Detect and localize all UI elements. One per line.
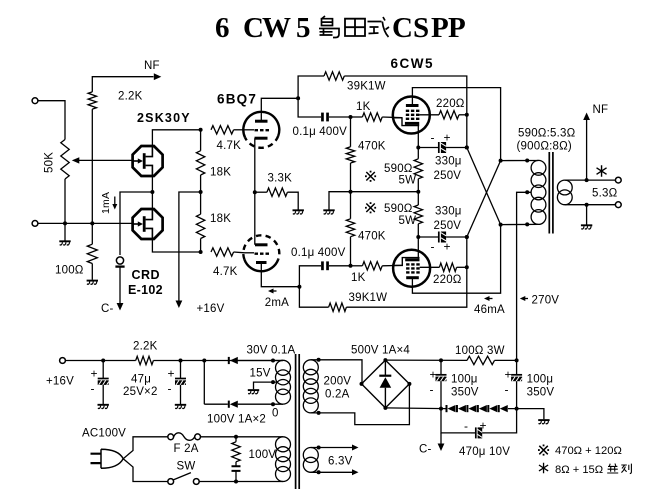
svg-text:100μ: 100μ [451,374,478,386]
6.3V bottom arrowhead [352,469,359,475]
svg-text:6BQ7: 6BQ7 [217,92,257,107]
svg-text:590Ω: 590Ω [384,163,413,175]
wire 6BQ7l cathode lead [261,263,299,287]
junction railA cap upper [465,146,469,150]
junction cross A bottom [465,235,469,239]
title kanji shiki [368,17,390,37]
svg-text:39K1W: 39K1W [349,292,388,304]
junction 6BQ7u plate node [296,96,300,100]
junction 200V top [317,358,321,362]
svg-text:-: - [431,240,435,254]
svg-text:-: - [431,131,435,145]
wire 100V bottom [199,481,283,483]
asterisk near 5.3ohm [597,165,607,177]
ground bias mid [323,210,334,214]
wire bias mid to gnd [329,192,351,210]
note refmark [538,445,549,456]
svg-text:4.7K: 4.7K [217,140,242,152]
svg-text:+: + [444,131,451,145]
junction 18K mid [199,190,203,194]
junction NF takeoff [585,178,589,182]
wire cathode node down 39K lower [299,287,328,308]
junction 6.3V bottom [317,470,321,474]
wire 15V tap [254,382,278,389]
wire plug bottom [123,459,168,482]
refmark near 590ohm upper [365,171,376,182]
svg-text:+: + [444,240,451,254]
46mA arrow line [486,298,493,300]
svg-text:4.7K: 4.7K [213,266,238,278]
resistor 470K upper [346,147,354,163]
svg-text:5W: 5W [399,175,417,187]
snubber resistor [232,442,240,462]
svg-text:0.2A: 0.2A [325,389,350,401]
wire 6CW5l plate lead [412,225,500,294]
resistor 100ohm3W [467,356,495,364]
junction cascode mid [150,190,154,194]
junction cathode mid [416,190,420,194]
wire pot bottom [64,179,66,223]
wire 220ohm to railA lower [457,266,467,268]
junction railA cap lower [465,235,469,239]
OPT core [549,152,553,234]
wire plug top [123,437,168,459]
junction bridge bottom [383,406,387,410]
ground input [59,241,70,245]
junction bridge right [407,382,411,386]
resistor 590ohm lower [414,205,422,224]
C- arrowhead psu [438,444,445,452]
wire 1K to 6CW5 grid upper [382,116,402,119]
resistor 220ohm upper [439,111,459,119]
wire 200V top [311,360,362,384]
capacitor 0.1u lower [321,261,329,270]
diode 30V upper [228,357,238,364]
svg-text:590Ω: 590Ω [384,203,413,215]
wire SRPP mid to 3.3K [255,191,267,193]
svg-text:AC100V: AC100V [82,428,126,440]
junction 47u cap1 [101,359,105,363]
svg-text:25V×2: 25V×2 [123,386,158,398]
svg-text:6CW5: 6CW5 [215,12,311,44]
wire diode lower leads [204,403,283,405]
bias diode 3 [466,405,476,412]
wire OPT secondary top [565,179,616,181]
wire plate node down to cap [298,98,321,117]
svg-text:250V: 250V [434,170,462,182]
1mA arrow line [114,197,116,206]
wire input bottom [38,222,65,224]
OPT primary winding [531,160,546,224]
CRD diode E-102 [115,257,124,267]
svg-text:2mA: 2mA [265,297,289,309]
svg-text:-: - [168,382,172,396]
svg-text:6CW5: 6CW5 [391,56,435,71]
svg-text:30V 0.1A: 30V 0.1A [247,345,296,357]
svg-text:+: + [505,368,512,382]
wire 6BQ7u cathode lead [254,138,256,192]
resistor 4.7K lower [211,248,234,256]
svg-text:1mA: 1mA [100,192,112,214]
wire 590 upper leads [417,148,419,206]
svg-text:100Ω: 100Ω [55,265,84,277]
capacitor 100u second [511,360,522,408]
svg-text:590Ω:5.3Ω: 590Ω:5.3Ω [518,127,576,139]
junction railA g2 upper [465,113,469,117]
wire 200V bottom [311,384,410,425]
svg-text:100μ: 100μ [527,374,554,386]
wire 100ohm to gnd [91,264,93,280]
wire OPT primary top [501,160,539,162]
resistor 18K lower [196,214,204,238]
junction 6.3V top [317,446,321,450]
note asterisk [539,463,548,474]
svg-text:350V: 350V [451,387,479,399]
junction secondary gnd [585,203,589,207]
junction snubber bottom [234,480,238,484]
snubber capacitor [232,466,241,471]
ground 3.3K [293,210,304,214]
wire 18K rail top [200,130,202,151]
wire 1K lead left lower [351,265,363,267]
note kanji retsu [621,464,631,474]
svg-text:+: + [430,368,437,382]
wire 590 lower lead [417,224,419,237]
wire bias rail [385,408,544,419]
capacitor 0.1u upper [321,113,329,122]
svg-text:+16V: +16V [46,376,74,388]
junction 30V top [271,359,275,363]
wire secondary gnd [586,205,588,225]
resistor 4.7K upper [211,126,234,134]
capacitor 330u lower [418,232,467,243]
snubber wire [235,437,237,482]
capacitor 100u first [436,360,447,408]
junction cathode bottom [416,235,420,239]
wire J1 source to J2 drain [151,175,153,210]
svg-text:0: 0 [272,408,279,420]
PT core [296,354,300,489]
junction 47u cap2 [179,359,183,363]
bias diode 1 [446,405,456,412]
wire 4.7K to grid upper [234,129,245,131]
pot wiper arrow wire [79,159,134,161]
junction bias cap2 [515,407,519,411]
junction 18K bottom [199,250,203,254]
wire gnd stub input [64,223,66,240]
resistor 220ohm lower [439,263,456,271]
wire 470K upper bottom [350,163,352,192]
switch lever [173,473,191,480]
wire 100V top [200,436,283,438]
junction cross B bottom [499,223,503,227]
svg-text:2.2K: 2.2K [118,91,143,103]
wire 6BQ7u grid lead [245,129,255,131]
svg-text:18K: 18K [210,213,231,225]
refmark near 590ohm lower [365,202,376,213]
svg-text:100Ω 3W: 100Ω 3W [455,345,505,357]
wire input top [38,101,65,140]
junction cross B top [499,159,503,163]
tube 6CW5 lower [393,250,430,287]
svg-text:15V: 15V [250,368,271,380]
junction railA g2 lower [465,265,469,269]
OPT secondary winding [557,180,572,205]
wire OPT secondary bottom [565,204,616,206]
svg-text:F 2A: F 2A [174,443,199,455]
svg-text:39K1W: 39K1W [347,81,386,93]
svg-text:46mA: 46mA [474,304,505,316]
svg-text:500V 1A×4: 500V 1A×4 [351,345,410,357]
junction B+ cap1 [439,358,443,362]
svg-text:47μ: 47μ [131,374,151,386]
junction OPT bottom dot [525,222,529,226]
svg-text:5W: 5W [399,215,417,227]
NF arrowhead left [154,73,162,80]
wire mid to CRD [120,192,152,255]
input terminal top [32,98,38,104]
wire rail to 100ohm [91,223,93,244]
junction 18K top [199,128,203,132]
junction NF rail bottom [90,221,94,225]
svg-text:E-102: E-102 [128,283,163,297]
svg-text:3.3K: 3.3K [268,172,293,184]
resistor 100ohm [87,244,97,263]
wire 18K mid to +16V drop [179,192,201,301]
svg-text:6.3V: 6.3V [328,456,353,468]
svg-text:-: - [505,383,509,397]
junction grid node lower [349,264,353,268]
note kanji nami [607,464,618,474]
+16V arrowhead [176,301,183,309]
bias diode 5 [487,405,497,412]
resistor 39K1W lower [329,303,347,311]
fuse element [174,433,195,441]
resistor 2.2K upper [88,92,96,109]
svg-text:0.1μ 400V: 0.1μ 400V [293,126,348,138]
svg-text:0.1μ 400V: 0.1μ 400V [291,247,346,259]
2mA arrow line [270,290,277,292]
bias diode 2 [456,405,466,412]
input terminal bottom [32,221,38,227]
svg-text:100V 1A×2: 100V 1A×2 [207,414,266,426]
wire 6CW5l g2 lead [420,266,440,268]
ground 47u second [175,405,186,409]
svg-text:470μ 10V: 470μ 10V [459,446,510,458]
transistor 2SK30Y lower [133,209,163,239]
ground 15V tap [248,390,259,394]
terminal +16V [60,358,66,364]
wire 6BQ7u plate lead [261,98,298,121]
NF arrowhead right [583,113,590,121]
wire 1K to 6CW5 grid lower [382,264,402,266]
PT winding 6.3V [303,448,318,473]
junction grid node upper [349,115,353,119]
1mA arrowhead [112,204,117,210]
resistor 1K upper [362,113,382,121]
svg-text:-: - [464,419,468,433]
wire 4.7K to grid lower [234,251,245,254]
junction input gnd [63,221,67,225]
switch terminal right [193,479,199,485]
svg-text:220Ω: 220Ω [433,274,462,286]
svg-text:8Ω + 15Ω: 8Ω + 15Ω [555,464,603,476]
junction 30V bottom [271,402,275,406]
junction SRPP mid [253,190,257,194]
wire diode join vertical [203,361,205,405]
wire 1K lead left upper [351,116,363,118]
svg-text:270V: 270V [532,295,560,307]
diode 30V lower [228,401,238,408]
C- arrowhead upper [117,303,124,311]
tube 6CW5 upper [393,97,430,134]
svg-text:C-: C- [101,303,114,315]
svg-text:330μ: 330μ [435,206,462,218]
junction 6BQ7l cathode node [297,285,301,289]
svg-text:100V: 100V [249,449,277,461]
svg-text:1K: 1K [351,272,366,284]
wire CRD to C- [119,267,121,303]
svg-text:18K: 18K [210,166,231,178]
junction bridge top [383,358,387,362]
svg-text:(900Ω:8Ω): (900Ω:8Ω) [517,141,572,153]
wire C- psu [440,433,442,444]
wire 6CW5u g2 lead [419,114,439,116]
svg-text:+: + [91,367,98,381]
wire cap to 1K node upper [329,116,351,118]
PT winding 100V [276,437,291,482]
270V arrowhead [520,296,526,301]
resistor 590ohm upper [414,159,422,179]
270V arrow line [522,298,528,300]
2mA arrowhead [268,289,274,294]
capacitor 470u 10V [471,427,485,438]
svg-text:50K: 50K [44,152,56,173]
svg-text:200V: 200V [324,376,352,388]
svg-text:-: - [91,382,95,396]
svg-text:470Ω + 120Ω: 470Ω + 120Ω [555,445,622,457]
wire 6CW5u cathode lead [417,124,419,148]
svg-text:5.3Ω: 5.3Ω [592,188,618,200]
svg-text:CRD: CRD [132,268,161,282]
svg-text:330μ: 330μ [435,156,462,168]
wire 470K lower leads [350,192,352,266]
wire 6BQ7l plate lead [254,192,256,245]
wire 6BQ7l grid lead [245,252,255,254]
output terminal bottom [615,202,621,208]
resistor 1K lower [362,262,382,270]
wire NF up [586,119,588,180]
tube 6BQ7 upper [243,112,279,148]
svg-text:NF: NF [144,60,160,72]
svg-text:350V: 350V [527,387,555,399]
wire input bottom to rail [65,222,134,224]
wire cap to 1K node lower [329,265,351,267]
potentiometer 50K [61,140,69,180]
title kanji shima [319,16,339,38]
resistor 3.3K [267,188,288,196]
fuse terminal right [195,434,201,440]
resistor 2.2K psu [136,356,154,364]
bridge rectifier 500V [362,360,410,408]
wire J2 gate stub [133,222,135,224]
wire 470u branch [441,409,517,433]
svg-text:+: + [480,419,487,433]
wire 6.3V bottom [311,471,353,473]
tube 6BQ7 lower [243,235,279,271]
svg-text:SW: SW [177,461,196,473]
6.3V top arrowhead [352,445,359,451]
capacitor 47u first [98,361,109,405]
junction cross A top [465,146,469,150]
wire diode upper leads [238,360,283,362]
AC plug [91,449,124,468]
fuse terminal left [168,434,174,440]
junction cathode top [416,146,420,150]
wire 39K to rail A [344,76,467,148]
wire 220ohm to railA upper [459,114,467,116]
svg-text:-: - [430,383,434,397]
wire 18K rail bottom [200,239,202,253]
resistor 470K lower [346,219,354,237]
output terminal top [615,177,621,183]
junction snubber top [234,435,238,439]
junction OPT center tap [525,190,529,194]
capacitor 330u upper [418,142,467,153]
wire plate node up [298,76,324,98]
junction 200V bottom [317,411,321,415]
junction OPT top dot [525,159,529,163]
wire OPT center tap [517,192,532,360]
svg-text:2SK30Y: 2SK30Y [137,111,191,125]
wire 6CW5l cathode lead [417,237,419,260]
ground secondary [581,225,592,229]
capacitor 47u second [175,361,186,405]
ground 47u first [98,405,109,409]
wire 470K upper top [350,117,352,147]
svg-text:+: + [168,367,175,381]
bias diode 6 [498,405,508,412]
wire cross diagonal 2 [467,161,501,237]
svg-text:C-: C- [419,444,432,456]
wire B+ rail [385,359,516,361]
wire cross diagonal 1 [467,148,501,225]
svg-text:250V: 250V [434,220,462,232]
resistor 18K upper [196,151,204,175]
wire 6.3V top [311,447,353,449]
svg-text:CSPP: CSPP [392,12,466,44]
svg-text:1K: 1K [356,101,371,113]
wire cathode node to cap lower [299,266,321,287]
wire 18K mid [200,175,202,214]
wire NF rail [92,77,153,224]
ground 100ohm [87,281,98,285]
svg-text:470K: 470K [358,141,386,153]
svg-text:220Ω: 220Ω [436,98,465,110]
wire J2 source [152,238,200,252]
pot wiper arrowhead [72,157,80,163]
junction 15V tap [271,380,275,384]
title kanji ta [345,19,365,36]
wire OPT primary bottom [501,223,539,225]
wire bias mid to cathode mid [351,191,419,193]
junction bridge left [360,382,364,386]
wire 39K lower to rail A [346,237,466,307]
svg-text:+16V: +16V [197,303,225,315]
svg-text:NF: NF [593,104,609,116]
ground bias [538,420,549,424]
svg-text:2.2K: 2.2K [133,341,158,353]
